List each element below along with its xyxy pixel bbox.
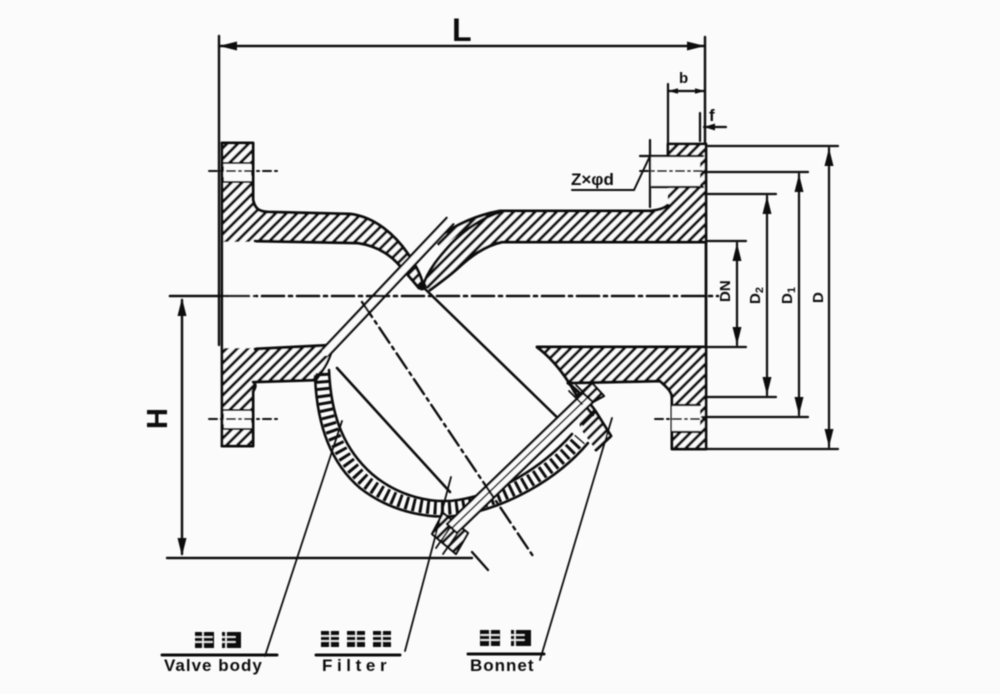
label valve body chinese (195, 632, 241, 648)
svg-text:Filter: Filter (322, 656, 391, 675)
leader bonnet (540, 418, 612, 660)
svg-text:H: H (142, 408, 174, 429)
right flange top bolt centerline (640, 170, 706, 172)
label bonnet underline (468, 653, 544, 656)
right pipe bottom outer wall (568, 381, 706, 449)
right flange plate hatched (668, 144, 706, 204)
filter screen band outer edge (315, 376, 588, 517)
dimension L line (219, 45, 705, 47)
left flange body hatched (222, 143, 423, 446)
junction tip blob (418, 282, 427, 291)
bonnet upper lug hatched (582, 383, 604, 402)
left flange top bolt hole edges (224, 163, 251, 182)
strainer cylinder left line (337, 368, 450, 492)
right branch wall outer edge (568, 383, 611, 450)
right pipe branch wedge hatched (423, 212, 502, 290)
dimension b (668, 84, 705, 162)
svg-text:Z×φd: Z×φd (571, 170, 614, 189)
strainer seat edge line upper (323, 218, 447, 349)
strainer seat edge line lower (329, 224, 453, 355)
dimension H arrows (178, 298, 187, 556)
label bonnet chinese (480, 630, 531, 646)
leader valve body (265, 421, 342, 656)
left flange outline top (222, 143, 423, 285)
left flange bore gap (222, 242, 255, 348)
bonnet upper bolt washer lines (569, 385, 596, 425)
leader filter (405, 477, 451, 651)
bonnet lower lug hatched (432, 513, 468, 554)
right flange bottom bolt hole edges (672, 405, 700, 432)
bonnet plate (447, 393, 593, 533)
right flange and pipe hatched (500, 144, 706, 242)
left flange top bolt hole gap (224, 163, 251, 182)
dimension f arrow (700, 113, 726, 141)
note Zxphid underline and leader (572, 156, 650, 190)
right pipe top inner wall (430, 242, 706, 290)
strainer partition line (420, 284, 566, 426)
svg-text:b: b (679, 70, 688, 87)
svg-text:Valve body: Valve body (164, 656, 263, 675)
left pipe bottom inner wall (255, 345, 333, 349)
left flange face line (221, 143, 224, 446)
right pipe bottom inner wall (537, 347, 706, 415)
strainer seat white strip (326, 221, 450, 352)
svg-text:f: f (709, 106, 715, 125)
left flange bottom bolt hole gap (224, 410, 251, 429)
filter screen band dashes (322, 373, 580, 508)
left pipe bottom outer wall (222, 380, 316, 446)
label filter underline (316, 654, 400, 657)
dimension DN (708, 241, 746, 347)
right pipe hump sliver hatched (434, 211, 500, 249)
branch axis centerline (362, 302, 533, 556)
filter screen band inner edge (329, 370, 572, 501)
label valve body underline (162, 654, 277, 657)
left pipe top inner wall (255, 241, 419, 288)
dimension b arrows (668, 88, 705, 94)
right pipe top outer wall (434, 205, 668, 240)
svg-text:D2: D2 (747, 287, 766, 304)
dimension D (672, 146, 838, 449)
svg-text:D: D (810, 292, 827, 303)
dimension L right arrow (687, 42, 705, 51)
bonnet plate inner line (452, 397, 588, 528)
svg-text:Bonnet: Bonnet (470, 656, 535, 675)
right pipe branch outer dive (423, 212, 500, 286)
left flange bottom bolt centerline (209, 418, 277, 420)
label filter chinese (321, 631, 391, 647)
L extension line right (704, 37, 706, 146)
bonnet lower bolt lines (436, 525, 459, 554)
dimension D2 (706, 194, 776, 397)
dimension H line (167, 300, 488, 570)
right flange outline (668, 144, 706, 449)
dimension D1 (702, 172, 808, 417)
right flange top bolt hole edges (640, 140, 703, 207)
svg-text:L: L (452, 12, 472, 48)
dimension L left arrow (219, 42, 237, 51)
svg-text:D1: D1 (779, 287, 798, 304)
centerline main horizontal (170, 295, 227, 298)
left pipe bottom wall cut edge (316, 345, 333, 380)
right flange bottom bolt hole gap (672, 405, 700, 432)
right flange bottom hatched (537, 347, 706, 450)
left flange top bolt centerline (209, 170, 277, 172)
svg-text:DN: DN (717, 280, 734, 302)
right flange bottom bolt centerline (655, 418, 706, 420)
right flange top bolt hole gap (651, 156, 700, 187)
L extension line left (218, 36, 220, 345)
left flange bottom bolt hole edges (224, 410, 251, 429)
